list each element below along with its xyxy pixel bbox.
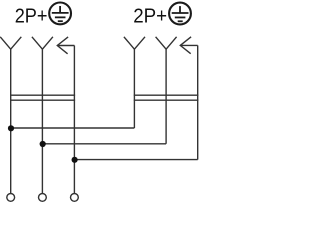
contact Y pole N socket 1 [32, 37, 53, 49]
junction dot N [40, 141, 46, 147]
earth contact arrow socket 1 [57, 37, 68, 54]
wire link L horizontal [11, 127, 135, 129]
socket 2 body bar bottom [134, 99, 199, 101]
wire L socket 1 vertical [10, 49, 12, 193]
earth glyph bar3 socket 1 [58, 20, 63, 22]
terminal PE [71, 194, 79, 202]
earth glyph bar2 socket 2 [175, 16, 186, 18]
earth contact arrow socket 2 [180, 37, 191, 54]
contact Y pole L socket 1 [0, 37, 21, 49]
socket 2 body bar top [134, 94, 199, 96]
terminal L [7, 194, 15, 202]
contact Y pole N socket 2 [156, 37, 177, 49]
wire link PE horizontal [74, 159, 197, 161]
contact Y pole L socket 2 [124, 37, 145, 49]
wire PE socket 1 vertical [73, 46, 75, 194]
earth glyph bar3 socket 2 [178, 20, 183, 22]
socket 1 body bar top [10, 94, 75, 96]
junction dot PE [72, 157, 78, 163]
terminal N [39, 194, 47, 202]
wire PE socket 2 vertical [197, 45, 199, 159]
earth symbol circle socket 2 [169, 3, 191, 25]
wire arrow to corner socket 2 [180, 44, 197, 46]
wire L socket 2 vertical [133, 49, 135, 128]
earth glyph stem socket 2 [179, 6, 181, 13]
earth glyph bar2 socket 1 [55, 16, 66, 18]
wire link N horizontal [42, 143, 166, 145]
earth glyph bar1 socket 1 [52, 12, 69, 14]
svg-text:2P+: 2P+ [15, 6, 48, 28]
earth glyph bar1 socket 2 [172, 12, 189, 14]
earth symbol circle socket 1 [49, 3, 71, 25]
svg-text:2P+: 2P+ [133, 6, 167, 28]
socket 1 body bar bottom [10, 99, 75, 101]
wire N socket 1 vertical [41, 49, 43, 193]
junction dot L [8, 125, 14, 131]
wire N socket 2 vertical [165, 49, 167, 144]
earth glyph stem socket 1 [59, 6, 61, 13]
wire arrow to corner socket 1 [57, 45, 74, 47]
